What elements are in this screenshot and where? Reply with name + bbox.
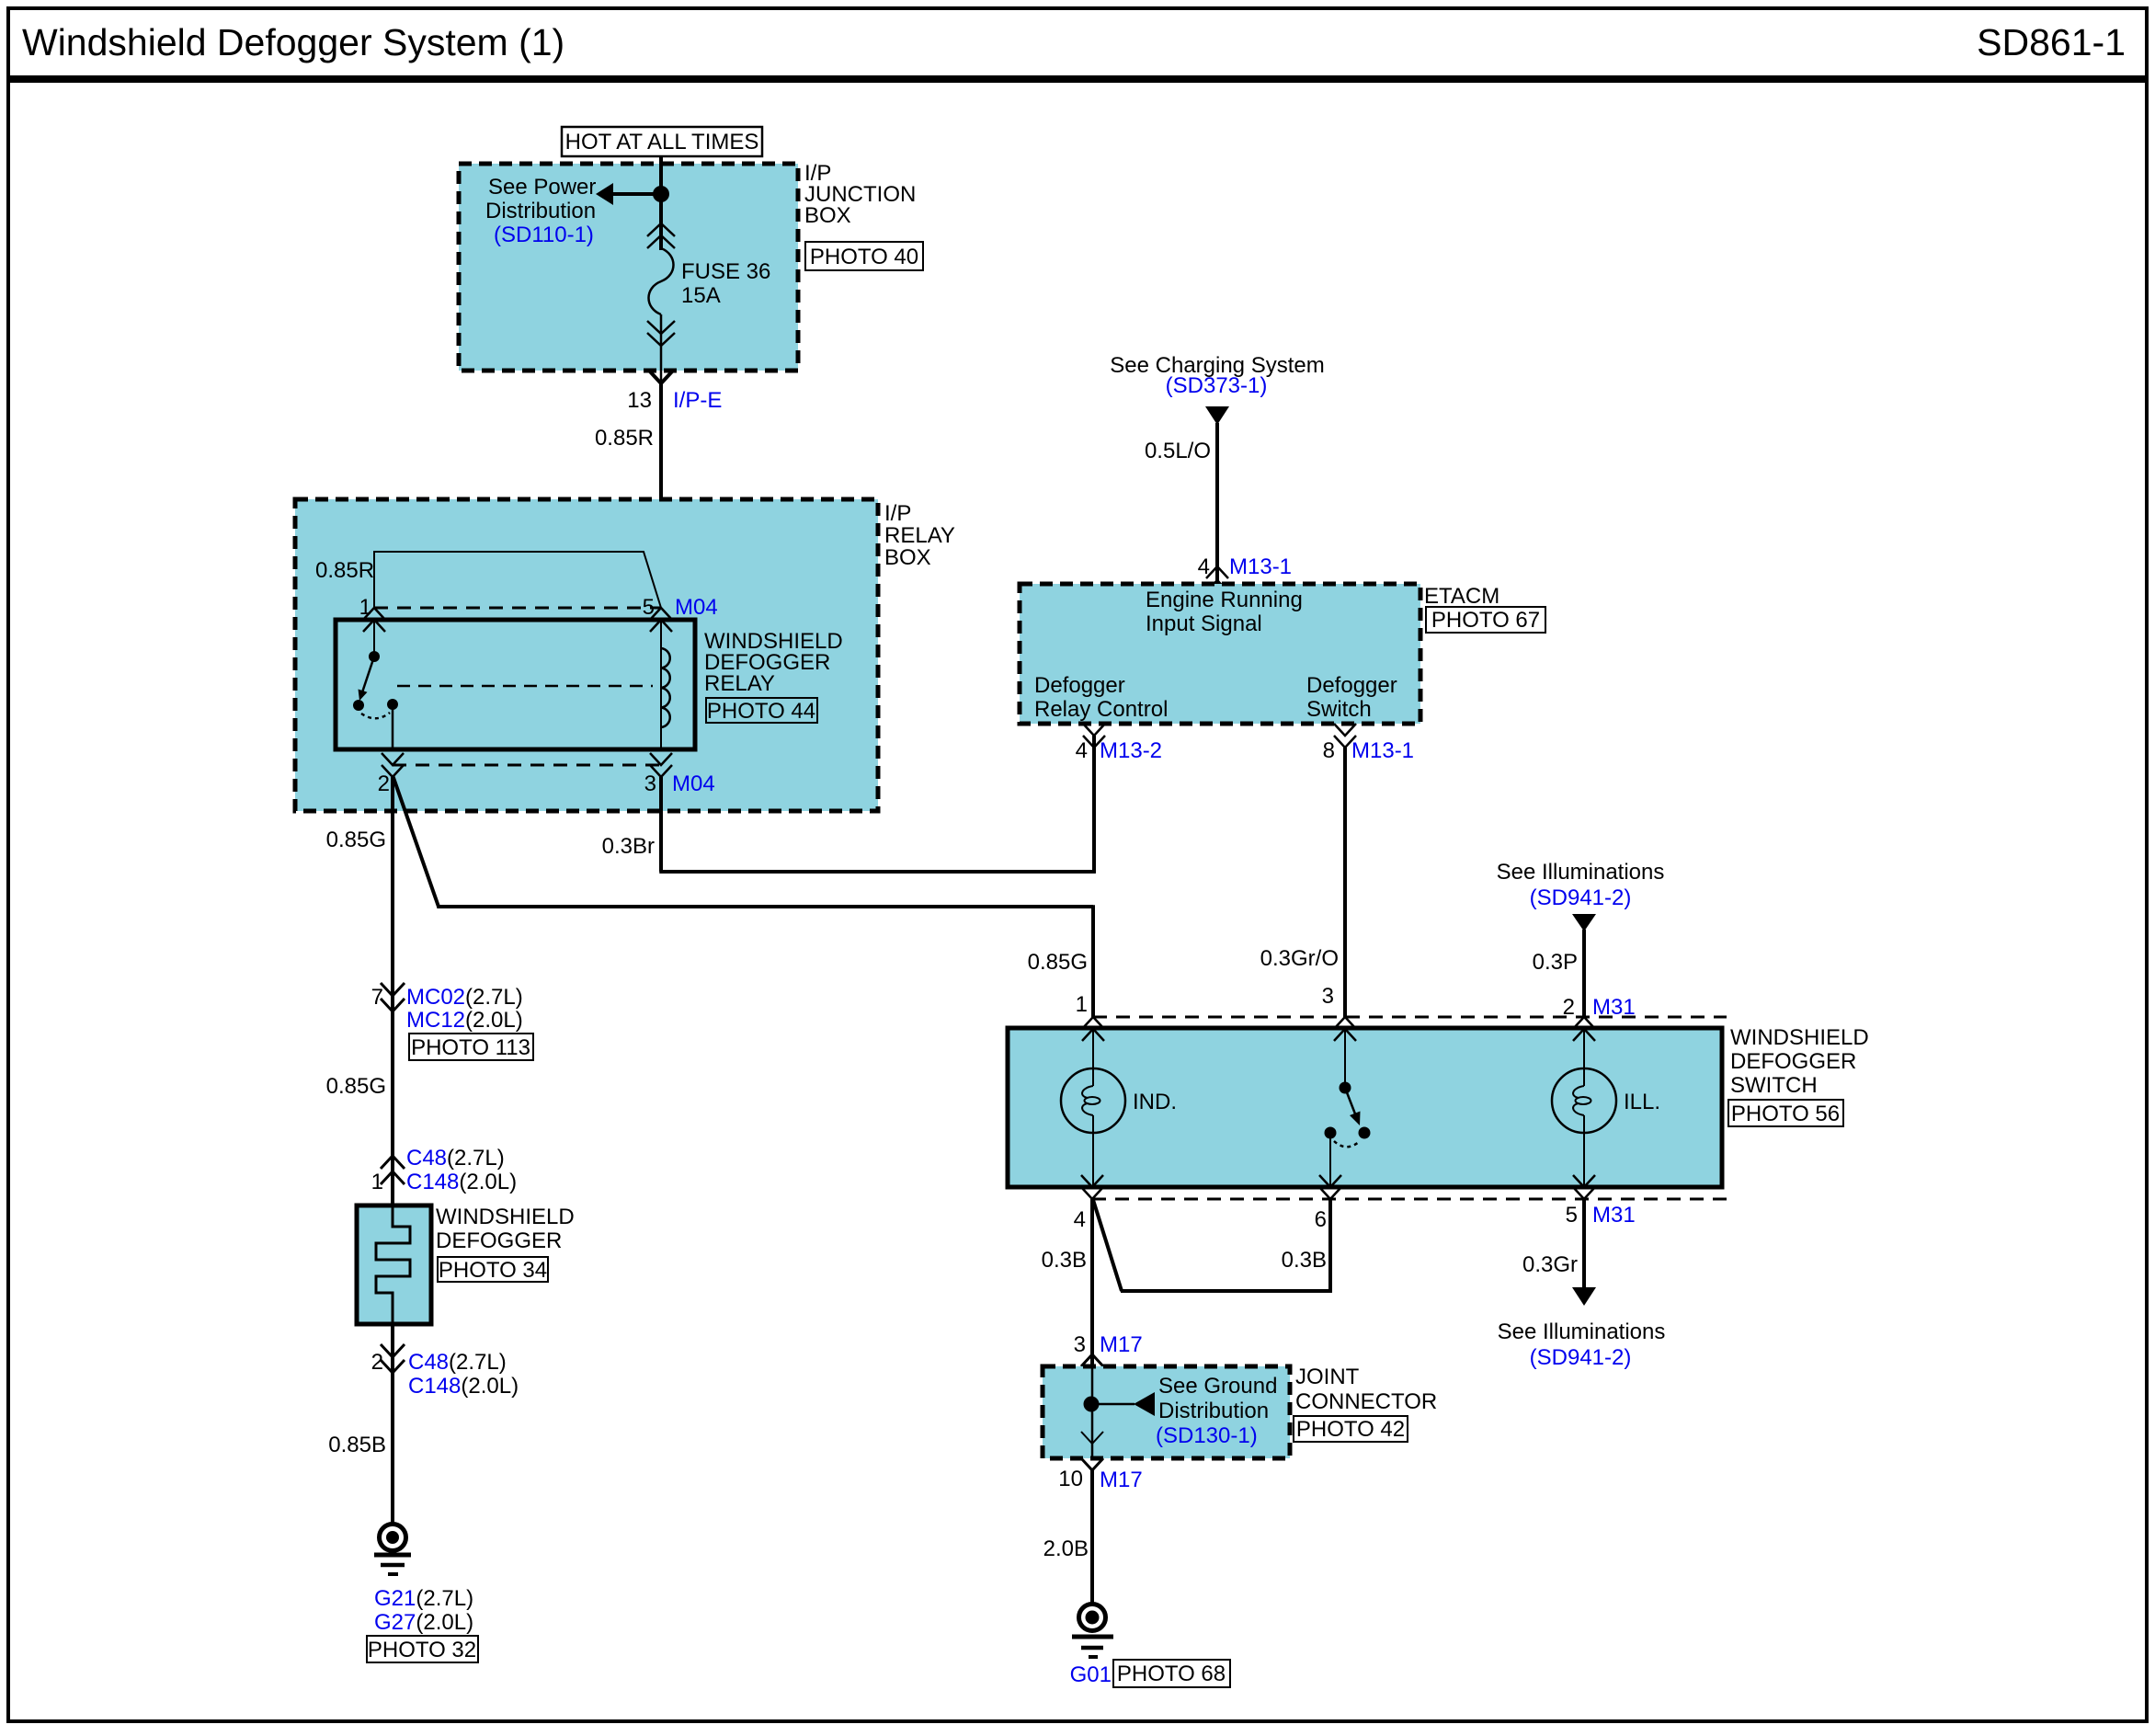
PHOTO 44 label box	[706, 698, 817, 724]
svg-text:MC02(2.7L): MC02(2.7L)	[406, 985, 523, 1010]
svg-text:BOX: BOX	[884, 545, 931, 570]
svg-text:SWITCH: SWITCH	[1730, 1073, 1818, 1098]
switch contact dot right	[1359, 1127, 1371, 1139]
connector C48 chevrons	[381, 1156, 405, 1169]
joint connector arrow down	[1081, 1432, 1103, 1444]
svg-text:0.85R: 0.85R	[595, 426, 654, 451]
switch wire bottom	[1329, 1133, 1331, 1187]
joint connector box (dashed)	[1043, 1366, 1290, 1458]
switch arm with arrowhead	[1345, 1088, 1356, 1116]
svg-text:5: 5	[643, 595, 655, 620]
connector row dashed bottom	[393, 764, 661, 767]
pin 2 chevrons	[1573, 1017, 1595, 1029]
connector C48-2 chevrons	[381, 1344, 405, 1357]
mechanical link dashed	[397, 685, 653, 688]
title separator thick line	[6, 75, 2149, 83]
svg-text:HOT AT ALL TIMES: HOT AT ALL TIMES	[565, 130, 759, 154]
connector MC02 chevrons	[381, 983, 405, 996]
svg-text:0.85R: 0.85R	[315, 558, 374, 583]
wire 0.85G down to switch pin1	[1091, 905, 1095, 1019]
svg-text:PHOTO 113: PHOTO 113	[411, 1035, 530, 1060]
I/P junction box (dashed)	[459, 164, 798, 371]
svg-text:2: 2	[1563, 995, 1575, 1020]
svg-text:C148(2.0L): C148(2.0L)	[408, 1374, 519, 1399]
pin 4 chevrons	[1081, 1175, 1103, 1187]
wire from HOT AT ALL TIMES into fuse	[659, 156, 663, 250]
wire 0.3P	[1582, 930, 1586, 1019]
IND lamp wire bottom	[1092, 1115, 1094, 1187]
svg-text:Input Signal: Input Signal	[1146, 611, 1262, 636]
ILL lamp circle	[1552, 1068, 1616, 1133]
pin 1 chevrons	[363, 608, 385, 620]
pin 4 M13-2 chevrons	[1083, 724, 1105, 736]
wire 0.3Br relay pin3 down	[659, 777, 663, 872]
wire through joint connector	[1091, 1366, 1094, 1458]
PHOTO 67 label box	[1426, 607, 1545, 633]
svg-text:See Ground: See Ground	[1158, 1374, 1277, 1399]
svg-text:M04: M04	[672, 771, 715, 796]
svg-text:CONNECTOR: CONNECTOR	[1295, 1389, 1437, 1414]
PHOTO 68 label box	[1113, 1660, 1230, 1687]
SWITCHBOX	[1008, 984, 1869, 1232]
svg-text:See Illuminations: See Illuminations	[1498, 1319, 1666, 1344]
svg-text:FUSE 36: FUSE 36	[681, 259, 770, 284]
svg-text:PHOTO 56: PHOTO 56	[1731, 1102, 1840, 1126]
svg-text:0.3Gr/O: 0.3Gr/O	[1260, 946, 1339, 971]
svg-text:PHOTO 68: PHOTO 68	[1117, 1662, 1226, 1686]
pin 8 M13-1 chevrons	[1334, 724, 1356, 736]
svg-text:(SD130-1): (SD130-1)	[1156, 1423, 1258, 1448]
svg-text:WINDSHIELD: WINDSHIELD	[1730, 1025, 1869, 1050]
relay switch common dot	[369, 651, 380, 662]
pin 1 chevrons	[1082, 1017, 1104, 1029]
wire diagonal join pin4 to pin6	[1093, 1200, 1122, 1291]
svg-text:SD861-1: SD861-1	[1977, 21, 2126, 63]
ILL lamp filament	[1573, 1086, 1584, 1115]
fuse F36 top chevrons	[647, 223, 675, 236]
ETACM box (dashed)	[1020, 584, 1420, 724]
IND lamp wire top	[1092, 1028, 1094, 1086]
svg-text:(SD373-1): (SD373-1)	[1166, 373, 1268, 398]
svg-text:M17: M17	[1100, 1332, 1143, 1357]
svg-text:I/P-E: I/P-E	[673, 388, 722, 413]
svg-text:10: 10	[1058, 1467, 1083, 1491]
PHOTO 113 label box	[409, 1034, 533, 1060]
RELAYBOX	[295, 499, 955, 811]
wire 0.85R down to relay box	[659, 383, 663, 622]
svg-text:ILL.: ILL.	[1624, 1090, 1660, 1114]
wire 0.85G diagonal from relay pin2	[393, 775, 439, 907]
svg-text:M04: M04	[675, 595, 718, 620]
svg-text:Engine Running: Engine Running	[1146, 588, 1303, 612]
wire fuse to box edge	[660, 314, 663, 383]
arrow to ground distribution	[1134, 1392, 1155, 1416]
wire 0.3B pin6 down	[1328, 1199, 1332, 1293]
wire 0.5L/O	[1215, 423, 1219, 586]
IND lamp circle	[1061, 1068, 1125, 1133]
page border right	[2145, 6, 2149, 1723]
ground G01 symbol	[1072, 1605, 1113, 1658]
svg-text:3: 3	[1322, 984, 1334, 1009]
connector 3 M17 chevrons	[1081, 1354, 1103, 1366]
svg-text:13: 13	[627, 388, 652, 413]
svg-text:MC12(2.0L): MC12(2.0L)	[406, 1008, 523, 1033]
relay contact dot right	[387, 699, 398, 710]
svg-text:DEFOGGER: DEFOGGER	[1730, 1049, 1856, 1074]
svg-text:0.5L/O: 0.5L/O	[1145, 439, 1211, 463]
wire to See Power Distribution arrow	[607, 192, 661, 196]
svg-text:IND.: IND.	[1133, 1090, 1177, 1114]
svg-text:WINDSHIELD: WINDSHIELD	[436, 1205, 575, 1229]
PHOTO 40 label box	[805, 242, 923, 270]
svg-text:PHOTO 42: PHOTO 42	[1296, 1417, 1405, 1442]
node junction dot	[653, 186, 669, 202]
relay switch arm	[362, 657, 374, 692]
svg-text:M13-2: M13-2	[1100, 738, 1162, 763]
svg-text:Distribution: Distribution	[1158, 1399, 1269, 1423]
svg-text:2.0B: 2.0B	[1043, 1536, 1089, 1561]
page border top	[6, 6, 2149, 10]
ILL lamp wire bottom	[1583, 1115, 1585, 1187]
svg-text:M13-1: M13-1	[1351, 738, 1414, 763]
svg-text:(SD941-2): (SD941-2)	[1530, 885, 1632, 910]
PHOTO 34 label box	[438, 1257, 548, 1283]
windshield defogger box	[357, 1205, 431, 1324]
svg-text:RELAY: RELAY	[884, 523, 955, 548]
svg-text:1: 1	[1076, 992, 1088, 1017]
connector pin 4 M13-1 chevrons	[1206, 566, 1228, 578]
svg-text:M31: M31	[1592, 1203, 1636, 1228]
svg-text:M31: M31	[1592, 995, 1636, 1020]
wire ETACM pin4 down	[1092, 736, 1096, 874]
fuse F36 bottom chevrons	[647, 321, 675, 334]
svg-text:4: 4	[1076, 738, 1088, 763]
PHOTO 42 label box	[1294, 1416, 1408, 1442]
svg-text:0.3Gr: 0.3Gr	[1522, 1252, 1578, 1277]
svg-text:2: 2	[371, 1350, 383, 1375]
svg-text:7: 7	[371, 985, 383, 1010]
relay contact dot left	[353, 700, 364, 711]
pin 6 chevrons	[1319, 1175, 1341, 1187]
relay coil wire top	[660, 620, 662, 749]
ETACM	[393, 353, 1664, 1019]
svg-text:0.85G: 0.85G	[1028, 950, 1088, 975]
wire 0.3Gr/O ETACM pin8 down	[1343, 748, 1347, 1019]
incoming arrow from illuminations	[1572, 914, 1596, 931]
switch contact dot left	[1325, 1127, 1337, 1139]
connector row dashed top	[1093, 1016, 1727, 1019]
wire to ground distribution arrow	[1091, 1403, 1135, 1406]
svg-text:G27(2.0L): G27(2.0L)	[374, 1610, 473, 1635]
branch wire pin5 to pin1	[374, 552, 661, 608]
windshield defogger switch box	[1008, 1028, 1722, 1187]
svg-text:PHOTO 44: PHOTO 44	[707, 699, 815, 724]
page border left	[6, 6, 10, 1723]
svg-text:C148(2.0L): C148(2.0L)	[406, 1170, 517, 1194]
svg-text:C48(2.7L): C48(2.7L)	[408, 1350, 507, 1375]
arrow to power distribution	[596, 183, 613, 205]
svg-text:PHOTO 34: PHOTO 34	[439, 1258, 547, 1283]
pin 5 chevrons	[1573, 1175, 1595, 1187]
relay coil wire bottom	[660, 727, 662, 749]
svg-text:4: 4	[1074, 1207, 1086, 1232]
svg-text:BOX: BOX	[804, 203, 851, 228]
svg-text:Defogger: Defogger	[1306, 673, 1397, 698]
ground G21/G27 symbol	[374, 1525, 411, 1575]
svg-text:M17: M17	[1100, 1468, 1143, 1492]
svg-text:3: 3	[644, 771, 656, 796]
pin 3 chevrons	[650, 753, 672, 765]
svg-text:See Illuminations: See Illuminations	[1497, 860, 1665, 885]
JBOX	[459, 127, 923, 622]
pin 2 chevrons	[382, 753, 404, 765]
I/P relay box (dashed)	[295, 499, 878, 811]
svg-text:4: 4	[1198, 554, 1210, 579]
fuse F36 body	[649, 248, 674, 314]
svg-text:0.85B: 0.85B	[328, 1433, 386, 1457]
svg-text:1: 1	[359, 595, 371, 620]
switch throw dashed arc	[1334, 1141, 1359, 1147]
svg-text:RELAY: RELAY	[704, 671, 775, 696]
defogger heating element	[376, 1205, 410, 1324]
LEFTCHAIN	[326, 777, 575, 1662]
wire 0.85G horizontal	[437, 905, 1093, 908]
svg-text:(SD941-2): (SD941-2)	[1530, 1345, 1632, 1370]
svg-text:See Power: See Power	[488, 175, 596, 200]
svg-text:0.3B: 0.3B	[1282, 1248, 1327, 1273]
svg-text:PHOTO 40: PHOTO 40	[810, 245, 918, 269]
svg-text:6: 6	[1315, 1207, 1327, 1232]
svg-text:Windshield Defogger System (1): Windshield Defogger System (1)	[22, 21, 564, 63]
svg-text:C48(2.7L): C48(2.7L)	[406, 1146, 505, 1171]
svg-text:8: 8	[1323, 738, 1335, 763]
wire 0.85G relay pin2 down	[391, 777, 394, 1205]
svg-text:1: 1	[371, 1170, 383, 1194]
wire contact to pin 2	[392, 704, 394, 749]
svg-text:0.85G: 0.85G	[326, 1074, 386, 1099]
wire horizontal join	[1121, 1289, 1332, 1293]
incoming arrow from charging system	[1205, 406, 1229, 425]
outgoing arrow to illuminations	[1572, 1287, 1596, 1306]
BOTTOM	[1042, 1199, 1666, 1687]
relay throw dashed arc	[361, 713, 390, 718]
svg-text:3: 3	[1074, 1332, 1086, 1357]
node junction dot	[1084, 1397, 1100, 1412]
connector row dashed top	[374, 607, 661, 610]
svg-text:15A: 15A	[681, 283, 721, 308]
relay coil	[661, 648, 670, 727]
svg-text:2: 2	[378, 771, 390, 796]
PHOTO 56 label box	[1728, 1100, 1843, 1126]
svg-text:JOINT: JOINT	[1295, 1365, 1360, 1389]
svg-text:Defogger: Defogger	[1034, 673, 1125, 698]
wire 0.3Br horizontal	[659, 870, 1096, 874]
svg-text:G21(2.7L): G21(2.7L)	[374, 1586, 473, 1611]
wire 0.3Gr pin5 down	[1582, 1199, 1586, 1288]
svg-text:(SD110-1): (SD110-1)	[494, 223, 594, 247]
svg-text:PHOTO 32: PHOTO 32	[368, 1638, 476, 1662]
pin 5 chevrons	[650, 608, 672, 620]
svg-text:DEFOGGER: DEFOGGER	[436, 1228, 562, 1253]
svg-text:5: 5	[1566, 1203, 1578, 1228]
page border bottom	[6, 1719, 2149, 1723]
svg-text:0.85G: 0.85G	[326, 828, 386, 852]
wire 0.3B pin4 down	[1090, 1199, 1094, 1366]
PHOTO 32 label box	[367, 1636, 478, 1662]
HOT AT ALL TIMES label box	[562, 127, 762, 156]
connector 10 M17 chevrons	[1081, 1458, 1103, 1470]
IND lamp filament	[1082, 1086, 1093, 1115]
wire defogger to ground	[391, 1324, 394, 1525]
connector row dashed bottom	[1092, 1198, 1727, 1201]
svg-text:0.3B: 0.3B	[1042, 1248, 1087, 1273]
wire 2.0B to ground	[1090, 1470, 1094, 1605]
svg-text:I/P: I/P	[884, 501, 911, 526]
svg-text:Switch: Switch	[1306, 697, 1372, 722]
svg-text:Distribution: Distribution	[485, 199, 596, 223]
svg-text:Relay Control: Relay Control	[1034, 697, 1168, 722]
switch wire top	[1344, 1028, 1346, 1085]
svg-text:0.3P: 0.3P	[1533, 950, 1578, 975]
windshield defogger relay outline	[336, 620, 695, 749]
svg-text:ETACM: ETACM	[1424, 584, 1499, 609]
connector pin 13 chevron	[649, 371, 673, 383]
svg-text:PHOTO 67: PHOTO 67	[1431, 608, 1540, 633]
svg-text:0.3Br: 0.3Br	[602, 834, 655, 859]
svg-text:G01: G01	[1070, 1662, 1112, 1687]
pin 3 chevrons	[1334, 1017, 1356, 1029]
switch common dot	[1340, 1082, 1351, 1094]
ILL lamp wire top	[1583, 1028, 1585, 1086]
relay pin1 wire stub	[373, 620, 375, 657]
svg-text:M13-1: M13-1	[1229, 554, 1292, 579]
